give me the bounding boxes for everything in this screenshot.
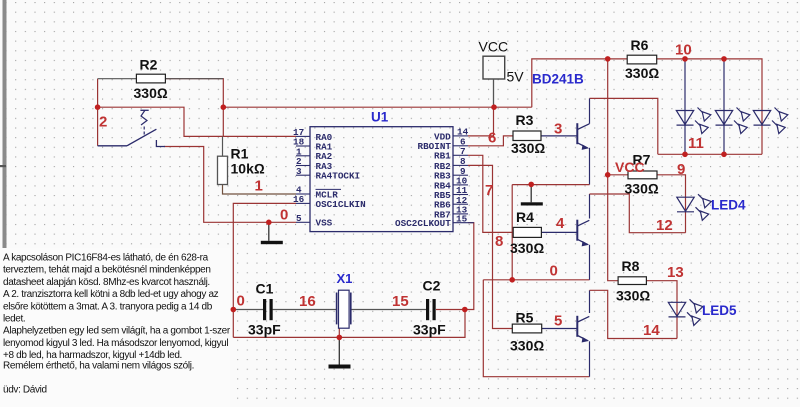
svg-text:330Ω: 330Ω	[510, 337, 544, 353]
svg-text:16: 16	[293, 194, 305, 205]
junction node 11 LED2 cathode	[721, 152, 727, 158]
resistor R3	[511, 112, 545, 156]
transistor Q2	[577, 220, 589, 246]
wire: R5 to Q3 base	[542, 328, 578, 330]
LED3	[753, 108, 788, 134]
wire: VCC rail right	[608, 59, 618, 281]
wire: Q1 collector riser	[589, 98, 591, 123]
wire: R7 feed	[608, 174, 628, 176]
svg-text:terveztem, tehát majd a beköté: terveztem, tehát majd a bekötésnél minde…	[3, 265, 211, 276]
junction node 0 emitter bus	[509, 277, 515, 283]
svg-text:A 2. tranzisztorra kell kötni: A 2. tranzisztorra kell kötni a 8db led-…	[3, 289, 219, 300]
svg-text:11: 11	[688, 135, 704, 152]
svg-text:VCC: VCC	[615, 159, 645, 175]
svg-text:330Ω: 330Ω	[616, 288, 650, 304]
svg-text:0: 0	[237, 293, 245, 310]
svg-text:15: 15	[392, 293, 409, 310]
junction VCC rail at R7	[605, 172, 611, 178]
ground at Q1 emitter	[521, 184, 543, 205]
wire: R7 to LED4	[657, 175, 686, 233]
svg-text:datasheet alapján kösd. 8Mhz-e: datasheet alapján kösd. 8Mhz-es kvarcot …	[3, 277, 210, 288]
left edge tick	[0, 165, 6, 167]
transistor Q3	[577, 316, 589, 342]
junction ground tap Q1 emitter	[528, 182, 534, 188]
svg-text:VCC: VCC	[479, 39, 509, 55]
wire: LED column 1	[684, 59, 686, 154]
svg-text:33pF: 33pF	[413, 322, 446, 338]
junction at X1 ground	[337, 335, 343, 341]
svg-text:8: 8	[495, 233, 503, 250]
wire: R3 to Q1 base	[541, 135, 577, 137]
white text panel	[0, 248, 230, 407]
left page-edge bar	[3, 0, 7, 248]
left pin stubs	[296, 136, 310, 222]
wire: cathode rail to Q1 collector	[590, 98, 658, 154]
chip U1 PIC16F84	[293, 110, 474, 232]
svg-text:12: 12	[656, 217, 673, 234]
junction node 2 left	[95, 104, 101, 110]
svg-text:lenyomod kigyul 3 led. Ha máso: lenyomod kigyul 3 led. Ha másodszor leny…	[3, 338, 228, 349]
svg-text:5: 5	[296, 213, 302, 224]
LED4	[677, 194, 712, 220]
wire: R8 to LED5	[646, 281, 677, 339]
svg-text:C2: C2	[423, 278, 441, 294]
svg-text:9: 9	[677, 161, 685, 178]
svg-text:R3: R3	[516, 112, 534, 128]
wire: C2 right to junction	[436, 223, 474, 310]
wire: MCLR from R1	[223, 185, 297, 195]
resistor R4	[510, 209, 544, 256]
wire: ground column x=512	[511, 185, 513, 280]
svg-text:33pF: 33pF	[248, 322, 281, 338]
svg-text:R4: R4	[516, 209, 534, 225]
ground under X1	[329, 337, 351, 368]
junction node 0 at C1	[231, 307, 237, 313]
junction node 0 at VSS	[266, 220, 272, 226]
wire: X1 to rail stub	[338, 328, 340, 337]
svg-text:16: 16	[299, 293, 316, 310]
wire: C1 to X1 (net 16)	[273, 309, 337, 311]
svg-text:4: 4	[556, 215, 565, 232]
svg-text:330Ω: 330Ω	[625, 180, 659, 196]
capacitor C1	[248, 281, 281, 338]
crystal X1	[337, 271, 353, 328]
svg-text:330Ω: 330Ω	[511, 140, 545, 156]
svg-text:A kapcsoláson PIC16F84-es láth: A kapcsoláson PIC16F84-es látható, de én…	[3, 253, 209, 264]
svg-text:1: 1	[255, 178, 263, 195]
svg-text:üdv: Dávid: üdv: Dávid	[3, 385, 47, 396]
svg-text:R1: R1	[231, 146, 249, 162]
svg-text:elsőre kötöttem a 3mat. A 3. t: elsőre kötöttem a 3mat. A 3. tranyora pe…	[3, 301, 213, 312]
resistor R2	[98, 57, 224, 101]
svg-text:5V: 5V	[507, 69, 525, 85]
LED2	[715, 108, 750, 134]
wire: top horizontal to RA0	[98, 107, 296, 136]
resistor R7	[625, 151, 659, 196]
svg-text:LED4: LED4	[711, 198, 746, 213]
wire: OSC1CLKIN long left wire	[233, 203, 296, 337]
junction node 2 at R2 right	[221, 104, 227, 110]
resistor R1	[218, 136, 265, 184]
wire: C1 row	[233, 309, 263, 311]
svg-text:2: 2	[99, 114, 107, 131]
svg-text:OSC2CLKOUT: OSC2CLKOUT	[395, 218, 451, 229]
svg-text:10: 10	[675, 42, 692, 59]
junction at VCC	[491, 104, 497, 110]
svg-text:OSC1CLKIN: OSC1CLKIN	[316, 199, 366, 210]
svg-text:5: 5	[554, 313, 562, 330]
wire: VCC riser to R6 rail	[532, 59, 627, 107]
wire: X1 to C2 (net 15)	[351, 309, 426, 311]
svg-text:330Ω: 330Ω	[510, 240, 544, 256]
svg-text:0: 0	[550, 263, 558, 280]
svg-text:R8: R8	[622, 258, 640, 274]
svg-text:330Ω: 330Ω	[625, 65, 659, 81]
wire: RBOINT to R3	[468, 136, 513, 146]
transistor Q1	[577, 123, 589, 149]
svg-text:Remélem érthető, ha valami nem: Remélem érthető, ha valami nem világos s…	[3, 360, 194, 371]
capacitor C2	[413, 278, 446, 338]
wire: VDD to VCC	[468, 107, 494, 136]
switch S1	[98, 110, 165, 146]
svg-text:ledet.: ledet.	[3, 314, 25, 325]
LED5	[668, 299, 703, 325]
wire: switch to VSS	[164, 147, 296, 223]
svg-text:Alaphelyzetben egy led sem vil: Alaphelyzetben egy led sem világít, ha a…	[3, 326, 231, 337]
svg-text:3: 3	[296, 166, 302, 177]
svg-text:3: 3	[554, 121, 562, 138]
wire: emitter ground bus	[483, 279, 589, 281]
ground at VSS	[261, 222, 283, 244]
svg-text:R2: R2	[140, 57, 158, 73]
svg-text:0: 0	[280, 207, 288, 224]
wire: LED cathode rail	[658, 153, 762, 155]
wire: RB1 to R4	[468, 155, 513, 232]
svg-text:13: 13	[667, 264, 684, 281]
svg-text:7: 7	[485, 182, 493, 199]
wire: Q1 emitter to ground row	[589, 148, 591, 185]
wire: R6 rail to LED columns	[657, 59, 762, 154]
LED1	[676, 108, 711, 134]
resistor R5	[510, 309, 544, 353]
VCC symbol	[479, 39, 525, 108]
wire: R2 right down to RA0 row	[165, 79, 223, 137]
wire: R4 to Q2 base	[541, 231, 577, 233]
note text block	[3, 253, 231, 396]
svg-text:C1: C1	[256, 281, 274, 297]
svg-text:6: 6	[488, 130, 496, 147]
right pin stubs	[453, 136, 474, 223]
svg-text:BD241B: BD241B	[532, 72, 584, 87]
junction node 10 LED1 anode	[682, 56, 688, 62]
svg-text:R6: R6	[631, 37, 649, 53]
wire: LED column 2	[723, 59, 725, 154]
svg-text:14: 14	[643, 322, 660, 339]
junction node 10 LED2 anode	[721, 56, 727, 62]
svg-text:15: 15	[456, 213, 468, 224]
svg-text:RA4TOCKI: RA4TOCKI	[316, 171, 361, 182]
resistor R8	[616, 258, 650, 304]
svg-text:U1: U1	[371, 110, 389, 125]
junction node 15 at C2	[462, 307, 468, 313]
wire: main rail y=107	[223, 106, 532, 108]
svg-text:LED5: LED5	[702, 303, 737, 318]
wire: RB2 to R5	[468, 165, 512, 328]
svg-text:330Ω: 330Ω	[134, 85, 168, 101]
wire: bottom crystal ground rail	[233, 310, 465, 338]
junction VCC rail top	[605, 56, 611, 62]
wire: Q2 emitter drop	[589, 245, 591, 280]
junction node 11 LED1 cathode	[682, 152, 688, 158]
svg-text:10kΩ: 10kΩ	[231, 161, 265, 177]
resistor R6	[625, 37, 659, 81]
wire: R2 left vertical (net 2)	[97, 79, 99, 146]
wire: Q2 collector to LED4 loop	[589, 194, 591, 219]
wire: ground bus to Q3 emitter	[483, 280, 589, 377]
svg-text:VSS: VSS	[316, 218, 333, 229]
svg-text:X1: X1	[337, 271, 353, 286]
svg-text:R5: R5	[516, 309, 534, 325]
wire: Q3 collector loop	[589, 290, 591, 313]
